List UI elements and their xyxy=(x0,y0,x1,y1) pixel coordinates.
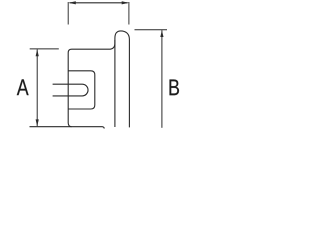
label A xyxy=(17,79,29,95)
slot / strap with rounded right cap xyxy=(53,84,88,96)
dimension line B vertical xyxy=(161,30,163,128)
extension line top-right xyxy=(128,2,130,25)
arrowhead A up xyxy=(36,49,39,56)
extension line top-left xyxy=(67,2,69,25)
dimension line A vertical xyxy=(36,49,38,126)
extension line A top xyxy=(30,48,59,50)
arrowhead left of top dimension xyxy=(69,1,76,4)
dimension line top (width) xyxy=(70,2,128,4)
interior wall edge line xyxy=(114,40,116,127)
label B xyxy=(170,80,179,96)
arrowhead right of top dimension xyxy=(122,1,129,4)
baseline: A bottom extension line merged with part bottom edge xyxy=(30,127,105,129)
extension line B top xyxy=(135,29,168,31)
pocket (inner recess outline) xyxy=(68,71,95,109)
arrowhead B up xyxy=(160,30,163,37)
arrowhead A down xyxy=(36,119,39,126)
part body outline: left edge, top edge, fillet, hump dome, right edge xyxy=(68,31,129,128)
